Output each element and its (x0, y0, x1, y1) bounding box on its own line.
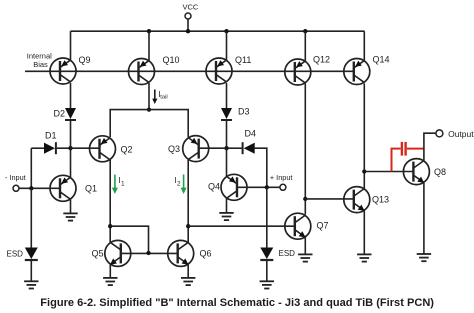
wire Q3 base (199, 147, 227, 149)
node Q13 base tap (303, 197, 307, 201)
terminal output (436, 130, 443, 137)
svg-text:D1: D1 (45, 131, 57, 141)
wire ESD right to ground (266, 260, 268, 281)
ground under Q7 (298, 254, 312, 261)
transistor Q10 (129, 59, 155, 85)
svg-text:Q7: Q7 (317, 221, 329, 231)
ground under Q5 (103, 278, 117, 285)
svg-text:Q2: Q2 (121, 144, 133, 154)
svg-text:D2: D2 (54, 109, 66, 119)
wire Q2 base (71, 147, 100, 149)
wire D3 to node (226, 121, 228, 149)
svg-text:1: 1 (121, 181, 125, 188)
wire minus input to Q1 base (19, 187, 60, 189)
svg-text:Q4: Q4 (208, 182, 220, 192)
wire VCC stem (187, 19, 189, 31)
svg-text:D4: D4 (245, 129, 257, 139)
wire Q2 collector down to Q5 (109, 160, 111, 242)
transistor Q4 (221, 174, 247, 200)
node D3/D4/Q3 base (224, 146, 228, 150)
svg-text:Q8: Q8 (434, 167, 446, 177)
ground under ESD right (260, 281, 274, 288)
wire Q9 emitter to rail (70, 31, 72, 60)
transistor Q12 (285, 59, 311, 85)
wire D4 anode to plus-input riser (254, 148, 267, 187)
wire tail horizontal (110, 110, 188, 137)
svg-text:2: 2 (177, 181, 181, 188)
svg-text:ESD: ESD (7, 250, 24, 259)
ground under Q4 (219, 213, 233, 220)
wire ESD left to ground (30, 260, 32, 281)
wire Q4 emitter up to D3 node (226, 148, 228, 176)
wire D4 cathode from node (227, 147, 243, 149)
transistor Q13 (344, 187, 370, 213)
transistor Q8 (403, 159, 429, 185)
node VCC rail / Q11 emitter (224, 29, 228, 33)
node VCC rail / Q12 emitter (303, 29, 307, 33)
transistor Q2 (90, 136, 116, 162)
wire Q8 collector to output (424, 133, 436, 160)
svg-text:Q6: Q6 (200, 249, 212, 259)
ground under Q13 (357, 254, 371, 261)
node D1/D2/Q2 base (68, 146, 72, 150)
node Q5/Q6 base (146, 251, 150, 255)
diode D1 (44, 142, 56, 154)
wire Q11 emitter to rail (226, 31, 228, 60)
terminal plus input (280, 184, 286, 190)
wire Q14 emitter from rail corner (363, 31, 365, 61)
svg-text:Q13: Q13 (372, 195, 389, 205)
current arrow I2 (175, 175, 187, 195)
wire Q13 base from tap (305, 198, 354, 200)
wire Q8 base from tap (364, 171, 413, 173)
wire top VCC rail (71, 30, 365, 32)
wire Q13 emitter to ground (363, 211, 365, 254)
transistor Q6 (168, 240, 194, 266)
diode D2 (65, 108, 76, 120)
svg-text:D3: D3 (238, 107, 250, 117)
svg-text:- Input: - Input (5, 173, 26, 182)
label Internal Bias (27, 52, 52, 70)
wire D1 cathode to node (57, 147, 71, 149)
transistor Q14 (344, 59, 370, 85)
svg-text:VCC: VCC (183, 3, 199, 12)
svg-text:Q9: Q9 (79, 55, 91, 65)
ESD diode left (25, 248, 38, 261)
wire D2 to node (70, 121, 72, 149)
wire Q11 collector to D3 (226, 83, 228, 108)
svg-text:Q10: Q10 (163, 55, 180, 65)
wire Q8 emitter to ground (423, 183, 425, 254)
svg-text:ESD: ESD (279, 249, 296, 258)
diode D3 (221, 108, 232, 120)
VCC terminal (183, 3, 199, 19)
wire internal bias base rail (25, 70, 354, 72)
svg-text:tail: tail (160, 94, 167, 100)
node Q3 collector / Q7 base tap (186, 224, 190, 228)
node VCC rail / VCC stem (186, 29, 190, 33)
current arrow Itail (152, 90, 168, 105)
transistor Q1 (50, 175, 76, 201)
node plus input junction (265, 185, 269, 189)
wire Q1 collector to ground (70, 200, 72, 214)
wire D1 anode lead (31, 147, 44, 149)
svg-text:Q14: Q14 (373, 55, 390, 65)
svg-text:Output: Output (448, 129, 474, 139)
ground under Q1 (63, 213, 77, 220)
svg-text:Q1: Q1 (85, 184, 97, 194)
svg-text:+ Input: + Input (270, 173, 293, 182)
node tail junction (147, 107, 151, 111)
wire Q9 collector to D2 (70, 83, 72, 108)
wire Q12 emitter to rail (304, 31, 306, 61)
wire Q12 collector down to Q7 collector (304, 84, 306, 215)
transistor Q7 (285, 213, 311, 239)
svg-text:Q3: Q3 (168, 144, 180, 154)
wire Q1 emitter up to D1 node (70, 148, 72, 177)
wire plus input ESD drop (266, 187, 268, 247)
wire Q7 emitter to ground (304, 238, 306, 255)
svg-text:Internal: Internal (27, 52, 52, 61)
ground under Q8 (417, 254, 431, 261)
transistor Q9 (50, 58, 76, 84)
svg-text:Q11: Q11 (235, 55, 251, 65)
wire plus input to Q4 base (237, 186, 280, 188)
node Q2 collector / mirror tap (108, 224, 112, 228)
wire Q5 emitter to ground (109, 265, 111, 278)
wire Q7 base from Q3 collector node (188, 225, 295, 227)
ESD diode right (260, 248, 273, 261)
wire mirror tap to Q5/Q6 base node (110, 226, 148, 253)
node minus input junction (29, 186, 33, 190)
wire Q5/Q6 base link (121, 252, 178, 254)
svg-text:Q5: Q5 (92, 249, 104, 259)
diode D4 (243, 142, 255, 154)
capacitor C1 red compensation (392, 142, 424, 172)
wire Q10 emitter to rail (148, 31, 150, 61)
ground under ESD left (24, 281, 38, 288)
svg-text:Q12: Q12 (313, 55, 330, 65)
wire Q4 collector to ground (226, 199, 228, 213)
transistor Q3 (183, 136, 209, 162)
transistor Q5 (105, 240, 131, 266)
svg-text:Figure 6-2. Simplified "B" Int: Figure 6-2. Simplified "B" Internal Sche… (40, 297, 434, 309)
svg-text:Bias: Bias (33, 60, 48, 69)
terminal minus input (13, 185, 19, 191)
current arrow I1 (112, 175, 125, 195)
wire Q10 collector to tail node (148, 83, 150, 110)
wire minus input ESD drop (30, 188, 32, 247)
wire Q14 collector down to Q13 collector (363, 84, 365, 189)
node Q8 base tap (362, 169, 366, 173)
transistor Q11 (206, 58, 232, 84)
wire Q3 collector down to Q6 (187, 160, 189, 242)
node VCC rail / Q10 emitter (147, 29, 151, 33)
wire Q6 emitter to ground (187, 265, 189, 278)
ground under Q6 (181, 278, 195, 285)
wire minus-input riser to D1 (30, 148, 32, 188)
